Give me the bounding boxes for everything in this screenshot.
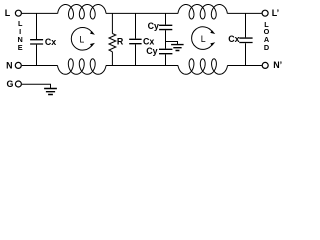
net label LINE <box>18 19 23 52</box>
svg-text:D: D <box>264 43 269 52</box>
capacitor Cx2 leads <box>135 13 137 65</box>
svg-text:Cx: Cx <box>45 37 56 47</box>
svg-text:Cy: Cy <box>146 46 157 56</box>
wire bottom rail: N terminal to L1 bottom winding <box>22 65 58 67</box>
capacitor Cx3 plates <box>239 38 252 42</box>
wire top rail: L2 to L' terminal <box>227 12 261 14</box>
svg-text:N: N <box>6 61 12 71</box>
wire top rail: L terminal to L1 top winding <box>22 12 58 14</box>
svg-text:R: R <box>117 36 124 46</box>
terminal G <box>15 81 21 87</box>
capacitor Cx1 plates <box>30 40 43 44</box>
inductor L2 bottom winding <box>178 59 228 74</box>
wire bottom rail: L2 to N' terminal <box>228 65 262 67</box>
net label LOAD <box>264 20 270 52</box>
capacitor Cx2 plates <box>129 39 141 43</box>
svg-text:Cx: Cx <box>143 36 154 46</box>
svg-text:E: E <box>18 43 23 52</box>
ground (chassis) <box>44 89 57 95</box>
terminal N <box>15 62 21 68</box>
capacitor Cy2 plates <box>159 49 172 53</box>
svg-text:N’: N’ <box>273 60 282 70</box>
svg-text:L: L <box>79 35 84 45</box>
svg-text:L: L <box>201 34 206 44</box>
terminal L <box>15 10 21 16</box>
capacitor Cy2 leads <box>165 42 167 66</box>
inductor L2 top winding <box>178 5 227 20</box>
inductor L1 bottom winding <box>58 59 107 74</box>
resistor R leads <box>111 13 113 65</box>
choke L2 coupling arrow <box>192 27 213 50</box>
svg-text:Cx: Cx <box>228 34 239 44</box>
capacitor Cx3 leads <box>245 13 247 65</box>
svg-text:Cy: Cy <box>148 21 159 31</box>
choke L1 coupling arrow <box>71 28 92 51</box>
svg-text:L: L <box>5 8 11 18</box>
capacitor Cy1 leads <box>165 13 167 41</box>
svg-text:L’: L’ <box>272 8 279 18</box>
ground (Cy midpoint) <box>171 45 184 51</box>
terminal N' <box>262 62 268 68</box>
svg-text:G: G <box>6 79 13 89</box>
capacitor Cx1 leads <box>36 13 38 65</box>
wire Cy midpoint to ground <box>166 42 178 45</box>
wire G terminal to chassis ground <box>22 84 51 88</box>
inductor L1 top winding <box>58 5 106 20</box>
terminal L' <box>262 10 268 16</box>
resistor R zigzag <box>109 34 116 52</box>
wire top rail: L1 to L2 <box>106 12 178 14</box>
capacitor Cy1 plates <box>159 25 172 29</box>
wire bottom rail: L1 to L2 <box>106 65 178 67</box>
